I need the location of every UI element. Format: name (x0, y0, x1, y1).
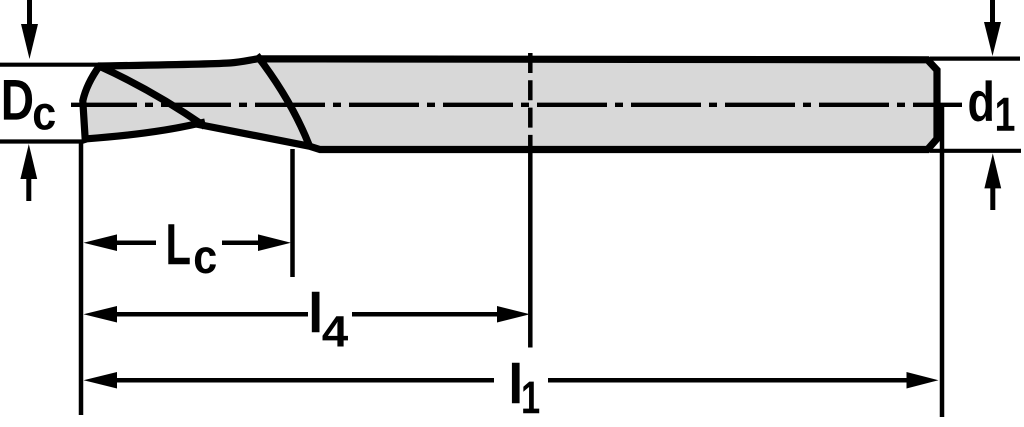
flute tip diagonal (100, 67, 205, 127)
Lc right extension line (290, 149, 295, 277)
Dc bottom extension line (0, 139, 83, 143)
d1 top arrow (down) (990, 0, 995, 25)
tool body silhouette (flute + shank) (83, 59, 937, 150)
l1 dimension line (115, 378, 494, 383)
label l4 - subscript 4 (323, 316, 348, 346)
label Dc - D (4, 80, 32, 120)
label l1 - l (512, 363, 520, 404)
Dc top extension line (0, 63, 97, 67)
label d1 - d (969, 80, 992, 121)
Lc dimension line (115, 240, 156, 245)
dashed section line at l4 (528, 53, 533, 148)
label l1 - subscript 1 (523, 382, 539, 414)
Dc top arrow (down) (27, 0, 32, 26)
label d1 - subscript 1 (997, 98, 1014, 131)
label Dc - subscript c (34, 104, 55, 130)
label Lc - L (168, 224, 189, 264)
label l4 - l (312, 292, 320, 333)
left extension line (Lc/l4/l1) (79, 140, 84, 415)
flute-shank transition diagonal (257, 55, 309, 145)
flute gash edge stub at V junction (193, 122, 205, 125)
label Lc - subscript c (195, 247, 216, 273)
centerline dash-dot (71, 103, 962, 107)
l1 right extension line (940, 105, 945, 417)
l4 dimension line (115, 312, 308, 317)
Dc bottom arrow (up) (26, 179, 31, 201)
d1 top extension line (930, 56, 1020, 60)
d1 bottom arrow (up) (990, 188, 995, 210)
d1 bottom extension line (930, 149, 1021, 153)
